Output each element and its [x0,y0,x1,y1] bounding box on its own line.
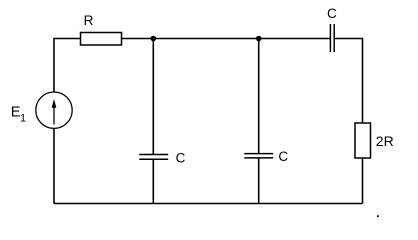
svg-text:C: C [327,6,337,21]
svg-text:C: C [278,149,288,164]
wire 2R to bottom rail [362,158,364,204]
label E1 [11,105,26,125]
capacitor C3 [330,24,334,52]
wire R to node A [122,38,154,40]
resistor 2R [355,123,371,158]
wire left vertical top (E1 to top rail) [54,39,81,93]
wire node B to capacitor C3 [259,38,331,40]
wire C1 to bottom rail [152,159,154,203]
capacitor C2 [244,154,273,158]
wire node A to capacitor C1 [152,39,154,155]
resistor R [81,33,122,46]
wire C3 to right branch corner [334,39,362,124]
svg-text:C: C [176,151,186,166]
wire E1 to bottom rail [53,128,55,204]
bottom rail wire [54,203,363,205]
svg-text:2R: 2R [376,133,394,149]
wire node B to capacitor C2 [258,39,260,154]
stray dot mark [377,215,379,217]
node A junction dot [151,36,157,42]
node B junction dot [256,36,262,42]
capacitor C1 [139,155,168,160]
svg-text:R: R [84,13,94,28]
svg-text:1: 1 [20,113,26,125]
wire C2 to bottom rail [258,158,260,204]
wire node A to node B [153,38,258,40]
voltage source E1 [36,92,72,128]
